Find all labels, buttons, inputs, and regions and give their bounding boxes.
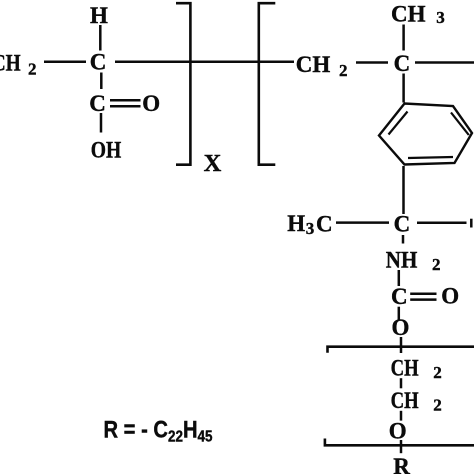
repeat-unit left bracket [ [259, 3, 276, 165]
bond CH2-C (unit 2) [356, 61, 388, 64]
svg-text:CH: CH [391, 1, 426, 26]
bond end tick at right [470, 219, 473, 228]
bond C to right (continues) [417, 222, 467, 225]
svg-text:C: C [394, 212, 411, 237]
svg-text:H: H [287, 211, 305, 236]
svg-text:C: C [90, 50, 107, 75]
svg-text:C: C [89, 91, 106, 116]
svg-text:C: C [394, 51, 411, 76]
benzene ring (para-substituted) [379, 104, 472, 165]
bond CH2-CH2 dash [400, 378, 403, 388]
svg-text:3: 3 [306, 219, 315, 238]
svg-text:O: O [142, 91, 160, 116]
bond NH-C vertical [398, 270, 401, 286]
bond C-NH vertical dash [402, 235, 405, 244]
svg-text:OH: OH [91, 138, 122, 163]
svg-text:O: O [441, 284, 459, 309]
svg-text:H: H [90, 3, 108, 28]
svg-text:C: C [316, 212, 333, 237]
svg-text:2: 2 [433, 396, 442, 415]
svg-text:CH: CH [391, 355, 419, 380]
svg-text:2: 2 [339, 61, 348, 80]
bond C to right edge (chain continues) [415, 61, 474, 64]
svg-text:3: 3 [436, 8, 445, 27]
svg-text:2: 2 [28, 60, 37, 79]
bond C-OH vertical [100, 113, 103, 133]
svg-text:C: C [391, 284, 408, 309]
bond C-O vertical [398, 307, 401, 320]
bond CH2-O dash [400, 411, 403, 421]
svg-text:R: R [393, 454, 410, 474]
backbone wire through brackets [115, 61, 294, 64]
ethoxy repeat top bracket [328, 347, 474, 353]
bond O through top bracket line [400, 337, 403, 353]
svg-text:O: O [392, 315, 410, 340]
bond C-C vertical (to acid carbon) [100, 73, 103, 90]
ethoxy repeat bottom bracket [325, 439, 474, 446]
svg-text:R = - C22H45: R = - C22H45 [104, 417, 213, 446]
bond H3C-C [336, 221, 389, 224]
svg-text:2: 2 [433, 363, 442, 382]
svg-text:NH: NH [386, 247, 418, 272]
svg-text:X: X [204, 150, 222, 177]
ring inner double bond upper-left [389, 112, 408, 135]
bond CH2-C (unit 1) [44, 61, 86, 64]
svg-text:CH: CH [296, 52, 331, 77]
bond ring-C vertical (para position) [402, 166, 405, 214]
ring inner double bond bottom [408, 157, 453, 158]
repeat-unit right bracket ] [176, 3, 190, 165]
svg-text:O: O [389, 418, 407, 443]
svg-text:2: 2 [432, 255, 441, 274]
svg-text:CH: CH [0, 51, 21, 76]
ring inner double bond upper-right [451, 113, 469, 136]
bond O through bottom bracket line [400, 440, 403, 453]
double bond C=O (carbamate) [410, 294, 436, 300]
bond C-ring vertical [402, 74, 405, 103]
double bond C=O (acid) [110, 100, 141, 106]
svg-text:CH: CH [391, 388, 419, 413]
bond CH3-C vertical [402, 25, 405, 51]
bond H-C vertical [99, 25, 102, 51]
